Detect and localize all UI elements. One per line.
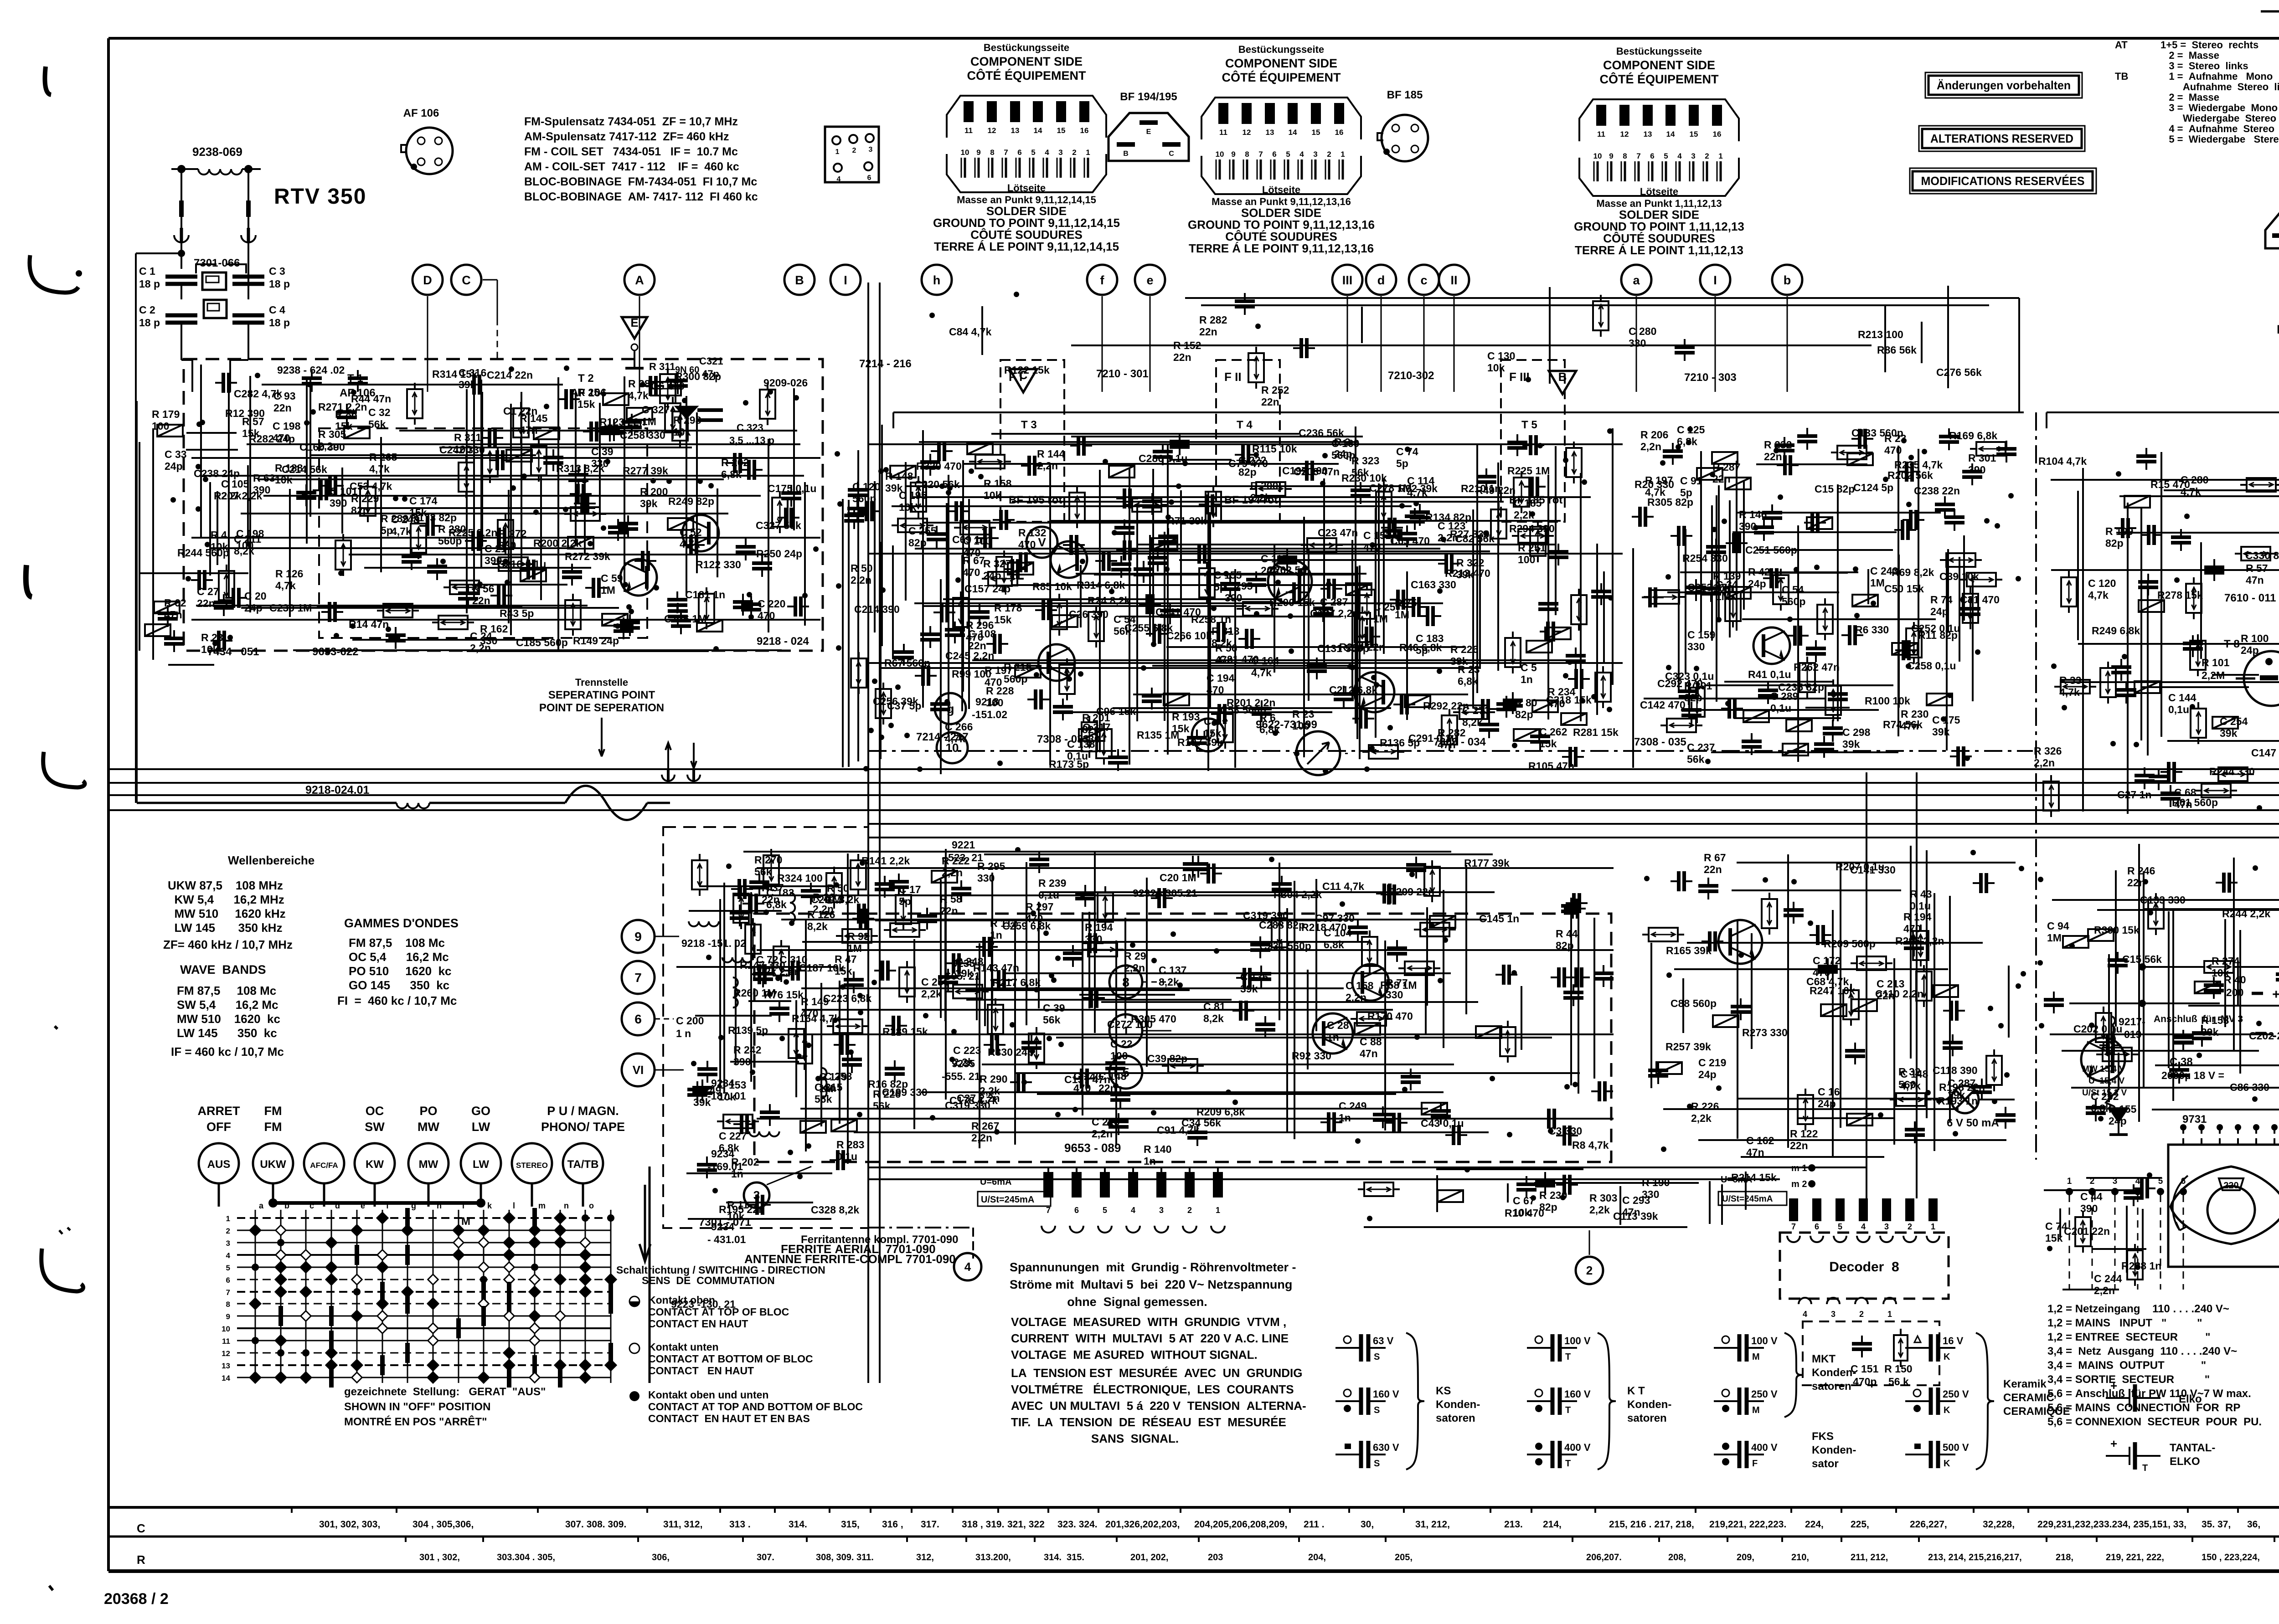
svg-text:C 327: C 327: [642, 404, 670, 416]
svg-text:II: II: [1450, 273, 1457, 287]
svg-text:301, 302, 303,: 301, 302, 303,: [319, 1519, 380, 1530]
svg-text:82p: 82p: [351, 504, 369, 516]
svg-text:K: K: [1944, 1459, 1950, 1469]
svg-text:C 117: C 117: [1261, 553, 1288, 565]
svg-text:22n: 22n: [1199, 326, 1217, 338]
svg-text:R100 10k: R100 10k: [1865, 695, 1910, 707]
svg-text:C: C: [462, 273, 471, 287]
svg-text:C20 1M: C20 1M: [1160, 872, 1196, 884]
svg-text:TERRE Á LE POINT 1,11,12,13: TERRE Á LE POINT 1,11,12,13: [1575, 243, 1743, 257]
svg-text:5: 5: [226, 1264, 230, 1272]
svg-text:R218 470: R218 470: [1301, 921, 1347, 933]
svg-text:C167 2,2n: C167 2,2n: [1310, 607, 1359, 619]
svg-text:R 270: R 270: [754, 854, 782, 866]
svg-text:82p: 82p: [2105, 537, 2124, 549]
svg-text:470: 470: [1207, 684, 1224, 696]
svg-text:FM 87,5 108 Mc: FM 87,5 108 Mc: [177, 984, 276, 997]
svg-text:R 11: R 11: [727, 1199, 749, 1211]
svg-text:9: 9: [1231, 150, 1235, 159]
svg-text:E: E: [1146, 128, 1151, 136]
svg-text:330: 330: [1629, 337, 1646, 349]
svg-text:STEREO: STEREO: [516, 1161, 548, 1170]
svg-text:C 223: C 223: [953, 1044, 981, 1056]
svg-text:PO: PO: [419, 1104, 437, 1118]
svg-text:39k: 39k: [1842, 738, 1860, 750]
svg-text:C 33: C 33: [165, 448, 187, 460]
svg-text:R 267: R 267: [971, 1120, 999, 1132]
svg-text:COMPONENT SIDE: COMPONENT SIDE: [1603, 58, 1715, 72]
svg-text:R92 330: R92 330: [1292, 1050, 1331, 1062]
svg-text:4,7k: 4,7k: [945, 733, 965, 745]
svg-text:8,2k: 8,2k: [756, 966, 777, 977]
svg-text:UKW: UKW: [260, 1158, 286, 1171]
svg-text:R 265: R 265: [369, 451, 397, 463]
svg-text:39k: 39k: [459, 379, 476, 391]
svg-text:R 197: R 197: [985, 664, 1012, 676]
svg-text:C133 560p: C133 560p: [1851, 427, 1903, 439]
svg-text:7210 - 303: 7210 - 303: [1684, 371, 1737, 384]
svg-text:Konden-: Konden-: [1436, 1398, 1480, 1411]
svg-text:4: 4: [226, 1251, 231, 1260]
svg-text:C 298: C 298: [1842, 726, 1871, 738]
svg-text:C43 0,1u: C43 0,1u: [1421, 1117, 1464, 1129]
svg-text:3: 3: [1159, 1206, 1164, 1215]
svg-text:15k: 15k: [1204, 727, 1222, 739]
svg-text:7: 7: [1046, 1206, 1051, 1215]
svg-text:47n: 47n: [520, 424, 538, 436]
svg-text:R278 15k: R278 15k: [2157, 589, 2203, 601]
svg-text:0,1u: 0,1u: [2168, 704, 2189, 715]
svg-text:56k: 56k: [754, 866, 772, 878]
svg-text:VOLTAGE MEASURED WITH GRUND: VOLTAGE MEASURED WITH GRUNDIG VTVM ,: [1011, 1315, 1286, 1329]
svg-text:4,7k: 4,7k: [391, 525, 412, 537]
svg-text:C286 0,1u: C286 0,1u: [1139, 452, 1187, 464]
svg-text:R136 5p: R136 5p: [1380, 737, 1420, 749]
svg-text:C278 1M: C278 1M: [1369, 482, 1412, 494]
svg-text:1: 1: [1718, 152, 1722, 160]
svg-text:FM 87,5 108 Mc: FM 87,5 108 Mc: [349, 936, 445, 950]
svg-text:Trennstelle: Trennstelle: [575, 677, 628, 688]
svg-text:R 327: R 327: [983, 558, 1011, 570]
svg-text:R 57: R 57: [2246, 562, 2268, 574]
svg-text:C 254: C 254: [2220, 715, 2248, 727]
svg-text:ARRET: ARRET: [198, 1104, 241, 1118]
svg-text:5p: 5p: [1396, 457, 1408, 469]
svg-text:C 162: C 162: [1746, 1135, 1774, 1146]
svg-text:C 52: C 52: [680, 526, 702, 538]
svg-text:R300 15k: R300 15k: [2094, 924, 2140, 936]
svg-text:R271 2,2n: R271 2,2n: [318, 401, 367, 413]
svg-text:R69 8,2k: R69 8,2k: [1892, 566, 1934, 578]
svg-text:R 303: R 303: [1589, 1192, 1617, 1204]
svg-text:Bestückungsseite: Bestückungsseite: [984, 42, 1069, 53]
svg-text:R330 24p: R330 24p: [988, 1046, 1034, 1058]
svg-text:R 62: R 62: [164, 597, 186, 609]
svg-text:6: 6: [634, 1012, 642, 1026]
svg-text:400 V: 400 V: [1751, 1442, 1778, 1453]
svg-text:C 27: C 27: [197, 586, 219, 597]
svg-text:R 50: R 50: [851, 562, 873, 574]
svg-text:C 172: C 172: [1813, 955, 1841, 966]
svg-text:Änderungen vorbehalten: Änderungen vorbehalten: [1937, 78, 2071, 92]
svg-text:47n: 47n: [1622, 1206, 1640, 1218]
svg-text:LW: LW: [472, 1120, 490, 1134]
svg-text:b: b: [1784, 273, 1791, 287]
svg-text:204,205,206,208,209,: 204,205,206,208,209,: [1194, 1519, 1287, 1530]
svg-text:10k: 10k: [899, 501, 917, 513]
svg-text:R 283: R 283: [836, 1139, 864, 1151]
svg-text:1n: 1n: [731, 1168, 743, 1180]
svg-text:39k: 39k: [640, 498, 658, 509]
svg-text:1: 1: [1931, 1222, 1935, 1231]
svg-text:15k: 15k: [577, 398, 595, 410]
svg-text:R244 2,2k: R244 2,2k: [2222, 908, 2270, 920]
svg-text:470: 470: [1884, 444, 1902, 456]
svg-text:F II: F II: [1224, 370, 1242, 384]
svg-text:R 226: R 226: [1450, 643, 1478, 655]
svg-text:82p: 82p: [908, 537, 927, 549]
svg-text:318 , 319.: 318 , 319.: [962, 1519, 1004, 1530]
svg-text:6,8k: 6,8k: [719, 1142, 739, 1154]
svg-text:4: 4: [1045, 148, 1049, 157]
svg-text:56k: 56k: [1043, 1014, 1061, 1026]
svg-text:R 126: R 126: [807, 909, 835, 920]
svg-text:C145 1n: C145 1n: [1479, 913, 1519, 925]
svg-text:PLATINE FI CPL 7306-050: PLATINE FI CPL 7306-050: [2277, 323, 2279, 336]
svg-text:9221: 9221: [952, 839, 975, 851]
svg-text:C 227: C 227: [719, 1130, 747, 1142]
svg-text:R105 47n: R105 47n: [1528, 760, 1574, 772]
svg-text:AFC/FA: AFC/FA: [310, 1161, 338, 1170]
svg-text:R 254: R 254: [577, 386, 606, 398]
svg-text:82p: 82p: [1515, 709, 1533, 720]
svg-text:13: 13: [1644, 130, 1652, 139]
svg-text:9: 9: [634, 930, 642, 944]
svg-text:C 255: C 255: [908, 525, 937, 537]
svg-text:VOLTMÉTRE ÉLECTRONIQUE, LES: VOLTMÉTRE ÉLECTRONIQUE, LES COURANTS: [1011, 1382, 1294, 1396]
svg-text:MW 510 1620 kc: MW 510 1620 kc: [177, 1012, 280, 1026]
svg-text:R 326: R 326: [2034, 745, 2062, 757]
svg-text:C 151 R 150: C 151 R 150: [1851, 1363, 1913, 1375]
svg-text:Spannunungen mit Grundig - R: Spannunungen mit Grundig - Röhrenvoltmet…: [1010, 1260, 1296, 1274]
svg-text:R281 15k: R281 15k: [1573, 726, 1619, 738]
svg-text:201, 202,: 201, 202,: [1130, 1552, 1168, 1562]
svg-text:R122 330: R122 330: [696, 559, 741, 570]
svg-text:314. 315.: 314. 315.: [1044, 1552, 1084, 1562]
svg-text:C1 22n: C1 22n: [503, 405, 537, 417]
svg-text:I: I: [844, 273, 847, 287]
svg-text:R115 10k: R115 10k: [1252, 443, 1297, 455]
svg-text:10k: 10k: [727, 1211, 745, 1223]
svg-text:T: T: [2142, 1463, 2148, 1473]
svg-text:C262 5p: C262 5p: [1267, 564, 1307, 576]
svg-text:CONTACT EN HAUT: CONTACT EN HAUT: [648, 1365, 754, 1377]
svg-text:CERAMIC: CERAMIC: [2003, 1392, 2054, 1404]
svg-text:C 194: C 194: [1207, 672, 1235, 684]
svg-text:R305 470: R305 470: [1131, 1013, 1176, 1025]
svg-text:35. 37,: 35. 37,: [2202, 1519, 2231, 1530]
svg-text:C79 470: C79 470: [1228, 457, 1268, 469]
svg-text:9218 - 024: 9218 - 024: [757, 635, 809, 648]
svg-text:l: l: [513, 1201, 515, 1210]
svg-text:10k: 10k: [984, 489, 1001, 501]
svg-text:C86 330: C86 330: [2230, 1081, 2269, 1093]
svg-text:2,2n: 2,2n: [1037, 460, 1058, 472]
svg-text:4: 4: [1803, 1310, 1807, 1319]
svg-text:12: 12: [1243, 128, 1251, 137]
svg-text:C124 5p: C124 5p: [1853, 482, 1893, 493]
svg-text:47n: 47n: [1746, 1146, 1764, 1158]
svg-text:R244 330: R244 330: [2209, 766, 2255, 777]
svg-text:R 58: R 58: [940, 893, 962, 905]
svg-text:M: M: [461, 1215, 470, 1228]
svg-text:22n: 22n: [940, 905, 958, 917]
svg-text:9209-026: 9209-026: [763, 377, 808, 389]
svg-text:C 280: C 280: [1629, 325, 1656, 337]
svg-text:1M: 1M: [2047, 932, 2062, 944]
svg-text:C 20: C 20: [244, 590, 267, 602]
svg-text:LW: LW: [473, 1158, 489, 1171]
svg-text:C: C: [1169, 150, 1174, 158]
svg-text:7: 7: [1004, 148, 1008, 157]
svg-text:14: 14: [222, 1374, 230, 1382]
svg-text:6,8k: 6,8k: [766, 899, 787, 910]
svg-text:2,2k: 2,2k: [1589, 1204, 1610, 1216]
svg-text:C 185: C 185: [1514, 497, 1542, 509]
svg-text:10k: 10k: [1713, 582, 1731, 594]
svg-text:R173 5p: R173 5p: [1049, 758, 1089, 770]
svg-text:390: 390: [733, 1056, 751, 1068]
svg-text:2,2k: 2,2k: [1250, 492, 1271, 504]
svg-text:7210 - 301: 7210 - 301: [1096, 368, 1149, 380]
svg-text:R8 4,7k: R8 4,7k: [1572, 1139, 1609, 1151]
svg-text:630 V: 630 V: [1373, 1442, 1399, 1453]
svg-text:R 162: R 162: [480, 623, 508, 635]
svg-text:C220 56k: C220 56k: [914, 478, 960, 490]
svg-text:C 211: C 211: [234, 533, 261, 545]
svg-text:24p: 24p: [2109, 1115, 2127, 1127]
svg-text:TIF. LA TENSION DE RÉSEAU: TIF. LA TENSION DE RÉSEAU EST MESURÉE: [1011, 1415, 1286, 1429]
svg-text:R122 15k: R122 15k: [1004, 364, 1050, 376]
svg-text:R 126: R 126: [275, 568, 303, 580]
svg-text:Keramik: Keramik: [2003, 1378, 2047, 1390]
svg-text:22n: 22n: [1764, 451, 1782, 463]
svg-text:3 = Wiedergabe Mono: 3 = Wiedergabe Mono: [2160, 102, 2278, 113]
svg-text:R 274: R 274: [2212, 955, 2240, 967]
svg-text:a: a: [1633, 273, 1640, 287]
svg-text:1M: 1M: [642, 416, 656, 427]
svg-text:R74 56k: R74 56k: [1883, 719, 1923, 730]
svg-text:82p: 82p: [1556, 940, 1574, 951]
svg-text:1: 1: [1216, 1206, 1220, 1215]
svg-text:316 ,: 316 ,: [882, 1519, 903, 1530]
svg-text:47n: 47n: [2246, 574, 2264, 586]
svg-text:AF 106: AF 106: [403, 107, 439, 119]
svg-text:ohne Signal gemessen.: ohne Signal gemessen.: [1067, 1295, 1207, 1309]
svg-text:3: 3: [1831, 1310, 1836, 1319]
svg-text:9217-: 9217-: [2119, 1016, 2145, 1028]
svg-text:C 240: C 240: [1073, 1070, 1101, 1082]
svg-text:C 273: C 273: [1462, 704, 1490, 716]
svg-text:13: 13: [222, 1362, 230, 1370]
svg-text:R207 2,2k: R207 2,2k: [214, 490, 262, 502]
svg-text:TA/TB: TA/TB: [567, 1158, 599, 1171]
svg-text:10k: 10k: [275, 474, 293, 486]
svg-text:500 V: 500 V: [1943, 1442, 1969, 1453]
svg-text:C 237: C 237: [1687, 741, 1715, 753]
svg-text:R262 47n: R262 47n: [1794, 661, 1840, 673]
svg-text:R 287: R 287: [1712, 461, 1740, 473]
svg-text:4 = Aufnahme Stereo rechts: 4 = Aufnahme Stereo rechts: [2160, 123, 2279, 134]
svg-text:560p: 560p: [852, 493, 876, 504]
svg-text:C 136: C 136: [1240, 971, 1268, 983]
svg-text:R67 560p: R67 560p: [884, 657, 930, 669]
svg-text:C292 470: C292 470: [1657, 678, 1703, 689]
svg-text:R272 39k: R272 39k: [565, 550, 610, 562]
svg-text:R209 6,8k: R209 6,8k: [1196, 1106, 1245, 1118]
svg-text:203: 203: [1208, 1552, 1223, 1562]
svg-text:C27 1n: C27 1n: [2117, 789, 2151, 801]
svg-text:100: 100: [1292, 720, 1310, 732]
svg-text:C37 5p: C37 5p: [887, 700, 921, 712]
svg-text:4,7k: 4,7k: [1900, 1080, 1921, 1092]
svg-text:C 4: C 4: [269, 304, 285, 316]
svg-text:C 155: C 155: [1214, 569, 1242, 581]
svg-text:-: -: [1345, 747, 1348, 759]
svg-text:2,2n: 2,2n: [942, 867, 963, 879]
svg-text:22n: 22n: [1712, 473, 1731, 485]
svg-text:+: +: [2272, 987, 2279, 1002]
svg-text:C 1: C 1: [139, 265, 155, 277]
svg-text:C147 560p: C147 560p: [2251, 747, 2279, 759]
svg-text:C 21: C 21: [485, 543, 507, 555]
svg-text:C214 390: C214 390: [854, 603, 900, 615]
svg-text:TERRE Á LE POINT 9,11,12,13,16: TERRE Á LE POINT 9,11,12,13,16: [1189, 242, 1374, 255]
svg-text:5: 5: [1103, 1206, 1107, 1215]
svg-text:C 287: C 287: [1320, 596, 1348, 608]
svg-text:R 178: R 178: [994, 602, 1022, 614]
svg-text:C330 8,2k: C330 8,2k: [2245, 550, 2279, 561]
svg-text:SANS SIGNAL.: SANS SIGNAL.: [1091, 1432, 1179, 1445]
svg-text:R 272: R 272: [499, 528, 526, 540]
svg-text:R 311: R 311: [454, 432, 481, 443]
svg-text:313 .: 313 .: [729, 1519, 751, 1530]
svg-text:2,2k: 2,2k: [921, 988, 942, 1000]
svg-text:1M: 1M: [1870, 577, 1885, 589]
svg-text:R 23: R 23: [201, 632, 223, 643]
svg-text:13: 13: [1266, 128, 1274, 137]
svg-text:24p: 24p: [1818, 1098, 1836, 1110]
svg-text:560p: 560p: [1331, 449, 1355, 461]
svg-text:MONTRÉ EN POS "ARRÊT": MONTRÉ EN POS "ARRÊT": [344, 1415, 487, 1428]
svg-text:C201 22n: C201 22n: [2064, 1225, 2110, 1237]
svg-text:12: 12: [988, 126, 996, 135]
svg-text:C216 0,1u: C216 0,1u: [497, 558, 546, 570]
svg-text:C 244: C 244: [2094, 1273, 2122, 1285]
svg-text:R169 6,8k: R169 6,8k: [1949, 430, 1997, 442]
svg-text:10: 10: [1593, 152, 1602, 160]
svg-text:R 33: R 33: [2059, 674, 2082, 686]
svg-text:100: 100: [152, 420, 169, 432]
svg-text:100 V: 100 V: [1564, 1335, 1591, 1346]
svg-text:313.200,: 313.200,: [975, 1552, 1011, 1562]
svg-text:C 17: C 17: [899, 884, 921, 895]
svg-text:C26 390: C26 390: [1069, 608, 1109, 620]
svg-text:C142 470: C142 470: [1640, 699, 1686, 711]
svg-text:4: 4: [1299, 150, 1304, 159]
svg-text:47n: 47n: [1438, 739, 1456, 750]
svg-text:C133 330: C133 330: [2140, 894, 2186, 906]
svg-text:C 94: C 94: [2047, 920, 2069, 932]
svg-text:R 242: R 242: [733, 1044, 761, 1056]
svg-text:6: 6: [2181, 1177, 2186, 1186]
svg-text:R258 1n: R258 1n: [1191, 613, 1231, 625]
svg-text:R27 330: R27 330: [1450, 528, 1490, 540]
svg-text:C 91: C 91: [1680, 475, 1702, 487]
svg-text:47n: 47n: [1360, 1048, 1378, 1059]
svg-text:GAMMES D'ONDES: GAMMES D'ONDES: [344, 916, 459, 930]
svg-text:Aufnahme Stereo links: Aufnahme Stereo links: [2160, 81, 2279, 93]
svg-text:1n: 1n: [824, 1082, 836, 1094]
svg-text:3,4 = MAINS OUTPUT: 3,4 = MAINS OUTPUT ": [2047, 1359, 2206, 1372]
svg-text:7: 7: [1258, 150, 1263, 159]
svg-text:R 230: R 230: [1539, 1189, 1567, 1201]
svg-text:T 4: T 4: [1237, 419, 1253, 431]
svg-text:R 44: R 44: [1556, 928, 1578, 940]
svg-text:10k: 10k: [673, 426, 691, 438]
svg-text:R217 6,8k: R217 6,8k: [992, 976, 1041, 988]
svg-text:P U / MAGN.: P U / MAGN.: [547, 1104, 619, 1118]
svg-text:C 3: C 3: [269, 265, 285, 277]
svg-text:C 105: C 105: [221, 478, 249, 490]
svg-text:6: 6: [226, 1276, 230, 1285]
svg-text:R 144: R 144: [1037, 448, 1065, 460]
svg-text:C 289: C 289: [1770, 690, 1798, 702]
svg-text:15: 15: [1312, 128, 1320, 137]
svg-text:11: 11: [222, 1337, 230, 1346]
svg-text:M: M: [1752, 1352, 1760, 1362]
svg-text:R193 1n: R193 1n: [1938, 1095, 1978, 1107]
svg-text:16: 16: [1335, 128, 1344, 137]
svg-text:R225 1M: R225 1M: [1507, 465, 1550, 477]
svg-text:C 153: C 153: [718, 1079, 746, 1091]
svg-text:390: 390: [1739, 520, 1756, 532]
svg-text:R257 39k: R257 39k: [1665, 1041, 1711, 1053]
svg-text:KW 5,4 16,2 MHz: KW 5,4 16,2 MHz: [168, 893, 284, 906]
svg-text:4,7k: 4,7k: [1407, 487, 1428, 499]
svg-text:56k: 56k: [1687, 753, 1705, 765]
svg-text:R41 0,1u: R41 0,1u: [1748, 668, 1791, 680]
svg-text:- 431.01: - 431.01: [707, 1233, 746, 1245]
svg-text:CÔTÉ ÉQUIPEMENT: CÔTÉ ÉQUIPEMENT: [967, 68, 1086, 82]
svg-text:11: 11: [1597, 130, 1605, 139]
svg-text:R24 8,2k: R24 8,2k: [1088, 595, 1130, 606]
svg-text:R288 1n: R288 1n: [2121, 1260, 2161, 1272]
svg-text:R 47: R 47: [835, 953, 857, 965]
svg-text:PHONO/ TAPE: PHONO/ TAPE: [541, 1120, 625, 1134]
svg-text:M: M: [1752, 1405, 1760, 1415]
svg-text:R 199: R 199: [2105, 525, 2133, 537]
svg-text:4,7k: 4,7k: [628, 390, 649, 401]
svg-text:211 .: 211 .: [1304, 1519, 1325, 1530]
svg-text:C50 15k: C50 15k: [1884, 583, 1924, 595]
svg-text:B: B: [795, 273, 804, 287]
svg-text:k: k: [487, 1201, 492, 1210]
svg-text:Lötseite: Lötseite: [1640, 186, 1678, 197]
svg-text:2,2n: 2,2n: [1124, 962, 1145, 974]
svg-text:470: 470: [1026, 913, 1043, 925]
svg-text:39k: 39k: [1450, 655, 1468, 667]
